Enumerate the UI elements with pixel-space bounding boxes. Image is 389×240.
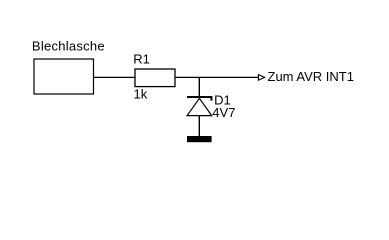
wire R1 to arrow — [176, 76, 259, 78]
svg-text:R1: R1 — [133, 51, 150, 66]
diode D1 zener cathode bar — [187, 97, 211, 101]
resistor R1 — [135, 69, 175, 87]
wire D1 to ground — [198, 116, 200, 136]
svg-text:1k: 1k — [134, 86, 148, 101]
diode D1 triangle — [187, 98, 212, 115]
connector J1 Blechlasche box — [34, 59, 94, 94]
wire box to R1 — [94, 76, 135, 78]
svg-text:Blechlasche: Blechlasche — [32, 38, 105, 53]
svg-text:4V7: 4V7 — [212, 105, 235, 120]
svg-text:Zum AVR INT1: Zum AVR INT1 — [268, 69, 354, 84]
arrowhead to AVR — [258, 75, 264, 81]
ground — [187, 136, 212, 142]
node junction wire down — [198, 77, 200, 97]
